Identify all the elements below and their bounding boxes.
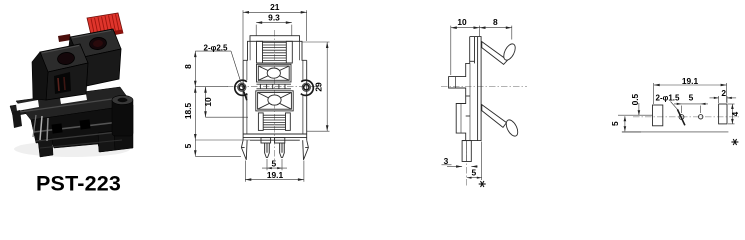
top cap: [250, 36, 300, 42]
stripes top button: [263, 43, 287, 61]
lower lever: [482, 105, 507, 128]
main outline: [462, 37, 481, 141]
bottom reference line: [622, 131, 729, 133]
svg-text:3: 3: [444, 156, 449, 166]
inner wall lines: [247, 61, 303, 134]
dim 5 pins: [266, 159, 268, 170]
svg-text:19.1: 19.1: [267, 170, 284, 180]
svg-text:19.1: 19.1: [682, 76, 699, 86]
dim 4: [728, 103, 735, 105]
svg-text:29: 29: [314, 82, 324, 92]
pressed red button hint: [58, 34, 71, 42]
svg-text:5: 5: [610, 121, 620, 126]
dim 0.5: [618, 114, 653, 116]
reference asterisk top view: [731, 139, 738, 145]
right tower: [70, 29, 121, 58]
bottom button posts: [258, 113, 263, 130]
pin shoulders: [261, 138, 271, 143]
svg-text:5: 5: [471, 168, 476, 178]
stripes bottom button: [263, 115, 285, 129]
svg-text:21: 21: [270, 2, 280, 12]
pins bottom left: [40, 116, 42, 140]
svg-text:5: 5: [271, 159, 276, 169]
dim 10 inner: [205, 87, 207, 118]
right body edge: [306, 60, 308, 140]
svg-text:8: 8: [183, 64, 193, 69]
upper lever: [482, 42, 508, 65]
dim 5 left: [622, 131, 641, 133]
hole 1: [679, 115, 684, 120]
X window 1: [257, 64, 292, 82]
base front face: [31, 105, 133, 152]
svg-text:4: 4: [730, 111, 740, 116]
X window 2: [256, 91, 293, 111]
right wing leg: [303, 140, 309, 160]
left shoulder: [243, 41, 250, 60]
svg-text:2-φ2.5: 2-φ2.5: [204, 43, 229, 52]
dim 29 right: [302, 41, 330, 43]
svg-text:0.5: 0.5: [630, 93, 640, 105]
dim 19.1: [653, 83, 655, 104]
left body edge: [242, 60, 244, 140]
svg-text:5: 5: [689, 93, 694, 103]
right shoulder: [300, 41, 307, 60]
front view dimensions: [194, 10, 330, 182]
leader 2-phi2.5: [231, 51, 244, 91]
dim 2 right pad: [718, 96, 720, 103]
leader 2-phi1.5: [671, 102, 678, 110]
svg-text:5: 5: [183, 143, 193, 148]
svg-text:8: 8: [493, 17, 498, 27]
mounting post cylinder: [112, 98, 133, 136]
inner verticals: [474, 37, 476, 64]
dim 3 (pin width): [442, 164, 452, 166]
base feet: [38, 138, 53, 157]
base frame highlight bars: [20, 99, 112, 112]
centerline: [633, 116, 739, 118]
centerline horizontal through ears: [227, 86, 323, 88]
small top-face highlights: [42, 46, 79, 54]
photo shadow: [14, 141, 130, 157]
dim 5: [481, 142, 483, 181]
hole 2: [699, 115, 703, 119]
middle divider band: [257, 83, 292, 85]
svg-text:10: 10: [203, 97, 213, 107]
reference asterisk side view: [479, 181, 486, 187]
svg-text:9.3: 9.3: [268, 12, 280, 22]
base rear bar: [10, 92, 101, 116]
svg-text:PST-223: PST-223: [36, 172, 121, 196]
dim 19.1: [244, 161, 246, 182]
pin left: [265, 143, 270, 157]
pin right: [280, 143, 285, 157]
svg-text:18.5: 18.5: [183, 103, 193, 120]
left dimension chain: [194, 51, 196, 156]
inner steps: [470, 60, 475, 62]
right pad: [719, 104, 727, 124]
dim 5 holes: [681, 106, 683, 114]
right ear: [302, 83, 310, 91]
dim 9.3: [255, 25, 257, 36]
centerline flange: [441, 86, 527, 88]
pin: [462, 141, 471, 162]
left leg foot: [12, 110, 22, 128]
pin centerline: [466, 143, 468, 186]
svg-text:2: 2: [721, 88, 726, 98]
left wing leg: [241, 140, 247, 160]
base top face: [16, 87, 133, 120]
left pad: [653, 105, 663, 126]
white slits in frame: [16, 100, 39, 111]
dim 21: [242, 10, 244, 60]
left ear: [238, 83, 246, 91]
red button (rear, raised): [87, 13, 123, 39]
centerline vertical: [273, 30, 275, 162]
svg-text:10: 10: [457, 17, 467, 27]
base lines: [243, 133, 307, 135]
left tower: [40, 44, 88, 72]
frame cutout notches: [52, 123, 63, 133]
left tower cavity with spring: [54, 72, 71, 94]
svg-text:2-φ1.5: 2-φ1.5: [656, 94, 681, 103]
button posts top: [257, 41, 263, 63]
